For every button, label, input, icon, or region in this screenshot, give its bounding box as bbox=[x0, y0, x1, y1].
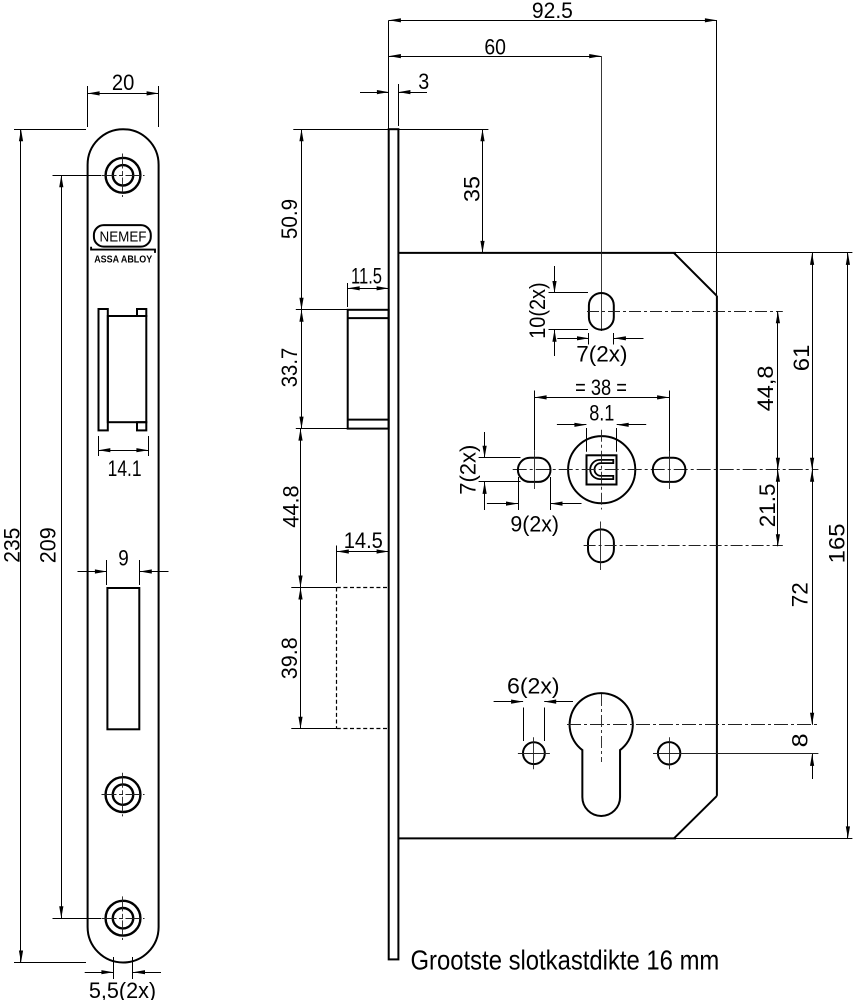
top oblong hole bbox=[589, 293, 614, 330]
bottom edge extension for 165 bbox=[676, 838, 852, 840]
svg-text:Grootste slotkastdikte 16 mm: Grootste slotkastdikte 16 mm bbox=[411, 944, 720, 975]
dim 3 line with outside arrows bbox=[360, 92, 389, 94]
svg-text:72: 72 bbox=[787, 582, 812, 607]
dim 165 line bbox=[847, 253, 849, 839]
right oblong vertical crosshair bbox=[669, 451, 671, 489]
svg-text:9: 9 bbox=[118, 546, 129, 571]
dim 14.1 line bbox=[98, 450, 148, 452]
latch bolt side view box bbox=[348, 310, 389, 429]
svg-text:5,5(2x): 5,5(2x) bbox=[89, 978, 156, 1000]
svg-text:14.5: 14.5 bbox=[344, 528, 383, 553]
svg-text:= 38 =: = 38 = bbox=[575, 375, 627, 400]
dim 14.5 line bbox=[337, 551, 389, 553]
top oblong horizontal centerline bbox=[587, 311, 783, 313]
dim 21.5 line bbox=[777, 470, 779, 547]
dim 9(2x) extension lines bbox=[518, 477, 520, 510]
top face extension line left bbox=[293, 129, 388, 131]
svg-text:165: 165 bbox=[824, 523, 849, 563]
latch cutout left bar bbox=[99, 309, 108, 430]
latch bottom extension line bbox=[296, 428, 348, 430]
dim 38 extension lines bbox=[534, 391, 536, 451]
latch cutout top tab bbox=[137, 309, 146, 316]
svg-text:14.1: 14.1 bbox=[108, 456, 142, 481]
lower oblong horizontal centerline bbox=[584, 545, 783, 547]
svg-text:60: 60 bbox=[484, 35, 506, 60]
bottom screw hole crosshair bbox=[102, 918, 145, 920]
top screw hole inner bbox=[113, 165, 133, 185]
left oblong hole at follower height bbox=[518, 458, 551, 482]
dim 7(2x) left extension lines bbox=[479, 457, 521, 459]
svg-text:33.7: 33.7 bbox=[277, 348, 302, 388]
lock case bottom chamfer bbox=[674, 796, 717, 839]
right oblong hole at follower height bbox=[653, 458, 686, 482]
left small hole near cylinder bbox=[523, 742, 545, 764]
faceplate front outline bbox=[88, 129, 159, 962]
dim 209 extension top bbox=[53, 175, 102, 177]
svg-text:7(2x): 7(2x) bbox=[576, 342, 627, 367]
svg-text:44.8: 44.8 bbox=[279, 485, 304, 527]
dim 50.9 line bbox=[301, 129, 303, 310]
dim 9 line with outside arrows bbox=[78, 571, 107, 573]
latch cutout main body bbox=[108, 316, 147, 422]
follower horizontal centerline bbox=[513, 469, 819, 471]
svg-text:7(2x): 7(2x) bbox=[456, 445, 481, 495]
dim 44,8 right line bbox=[777, 311, 779, 469]
latch bolt lip bottom line bbox=[348, 419, 389, 421]
top screw hole crosshair bbox=[102, 175, 145, 177]
svg-text:92.5: 92.5 bbox=[532, 0, 573, 23]
left small hole crosshair bbox=[518, 753, 550, 755]
lock case right edge bbox=[716, 296, 718, 796]
deadbolt cutout bbox=[107, 588, 139, 729]
svg-text:35: 35 bbox=[460, 176, 485, 202]
svg-text:NEMEF: NEMEF bbox=[100, 229, 147, 246]
top screw hole outer bbox=[106, 158, 141, 193]
top face extension line right bbox=[398, 129, 488, 131]
bottom screw hole outer bbox=[106, 901, 141, 936]
top edge extension for 61 165 bbox=[676, 252, 852, 254]
dim 92.5 line bbox=[389, 20, 717, 22]
dim 60 line bbox=[389, 56, 601, 58]
lock case bottom edge bbox=[398, 837, 676, 839]
dim 92.5 right extension bbox=[716, 20, 718, 296]
left oblong vertical crosshair bbox=[534, 451, 536, 489]
pocket bottom extension line bbox=[291, 728, 337, 730]
dim 5,5 extension lines bbox=[113, 957, 115, 979]
dim 7(2x) top line with outside arrows bbox=[557, 338, 589, 340]
dim 235 line bbox=[20, 129, 22, 962]
bottom screw hole inner bbox=[113, 908, 133, 928]
pocket top extension line bbox=[291, 587, 337, 589]
dim 3 right extension bbox=[398, 84, 400, 126]
latch bolt lip top line bbox=[348, 317, 389, 319]
follower vertical centerline bbox=[601, 430, 603, 510]
lower oblong hole bbox=[588, 529, 614, 562]
faceplate side strip bbox=[389, 129, 399, 959]
svg-text:11.5: 11.5 bbox=[351, 264, 382, 289]
dim 209 line bbox=[61, 175, 63, 918]
right small hole crosshair bbox=[669, 737, 671, 769]
dim 10(2x) line with outside arrows bbox=[554, 266, 556, 293]
follower circle bbox=[568, 436, 635, 503]
svg-text:235: 235 bbox=[0, 528, 24, 563]
follower square hole bbox=[587, 455, 617, 484]
svg-text:61: 61 bbox=[789, 345, 814, 372]
dim 9 extension lines bbox=[106, 560, 108, 585]
cylinder vertical centerline bbox=[601, 694, 603, 762]
dim 11.5 line bbox=[348, 288, 389, 290]
latch top extension line bbox=[296, 309, 348, 311]
dim 10(2x) extension lines bbox=[549, 292, 589, 294]
dashed deadbolt pocket top bbox=[337, 587, 389, 589]
dim 92.5 left extension bbox=[388, 20, 390, 129]
dim 6(2x) extension lines bbox=[523, 708, 525, 742]
dim 72 line bbox=[812, 470, 814, 725]
dashed deadbolt pocket bottom bbox=[337, 728, 389, 730]
right small hole near cylinder bbox=[658, 742, 680, 764]
middle screw hole crosshair bbox=[102, 794, 145, 796]
svg-text:3: 3 bbox=[418, 69, 429, 94]
dim 7(2x) top extension lines bbox=[588, 333, 590, 345]
svg-text:8: 8 bbox=[787, 733, 812, 747]
dim 209 extension bottom bbox=[53, 918, 102, 920]
svg-text:10(2x): 10(2x) bbox=[525, 282, 550, 338]
logo underline bracket bbox=[91, 247, 155, 253]
dim 235 extension bottom bbox=[14, 962, 86, 964]
dim 14.1 extension lines bbox=[98, 436, 100, 456]
right small hole horizontal centerline bbox=[653, 753, 818, 755]
lower oblong vertical crosshair bbox=[600, 522, 602, 571]
dashed deadbolt pocket left bbox=[336, 588, 338, 729]
follower spring clip C profile bbox=[590, 460, 613, 479]
dim 9(2x) line with outside arrows bbox=[487, 503, 518, 505]
cylinder horizontal centerline bbox=[567, 724, 818, 726]
middle screw hole outer bbox=[106, 777, 141, 812]
dim 8.1 extension lines bbox=[586, 428, 588, 452]
middle screw hole inner bbox=[113, 784, 133, 804]
euro cylinder hole bbox=[570, 693, 633, 816]
svg-text:39.8: 39.8 bbox=[277, 637, 302, 679]
dim 35 line bbox=[482, 129, 484, 253]
dim 60 right extension centerline bbox=[601, 56, 603, 331]
svg-text:20: 20 bbox=[112, 70, 134, 95]
dim 8 lower arrow with outside shaft bbox=[812, 754, 814, 779]
dim 38 line bbox=[535, 397, 670, 399]
lock case top chamfer bbox=[674, 253, 717, 296]
dim 44.8 left line bbox=[300, 429, 302, 588]
svg-text:44,8: 44,8 bbox=[753, 366, 778, 412]
dim 61 line bbox=[812, 253, 814, 470]
svg-text:ASSA ABLOY: ASSA ABLOY bbox=[94, 255, 152, 266]
svg-text:8.1: 8.1 bbox=[589, 400, 614, 425]
svg-text:50.9: 50.9 bbox=[277, 199, 302, 239]
dim 7(2x) left line with outside arrows bbox=[484, 432, 486, 458]
svg-text:6(2x): 6(2x) bbox=[507, 674, 560, 699]
dim 235 extension top bbox=[14, 129, 86, 131]
dim 39.8 line bbox=[300, 588, 302, 729]
svg-text:21.5: 21.5 bbox=[755, 484, 780, 528]
svg-text:209: 209 bbox=[36, 527, 61, 563]
dim 11.5 extension bbox=[347, 283, 349, 307]
dim 6(2x) line with outside arrows bbox=[494, 701, 523, 703]
dim 20 line bbox=[88, 93, 159, 95]
dim 20 extension lines bbox=[87, 86, 89, 127]
dim 8.1 line with outside arrows bbox=[557, 424, 587, 426]
NEMEF logo box bbox=[94, 225, 151, 247]
dim 5,5 line with outside arrows bbox=[85, 972, 114, 974]
dim 33.7 line bbox=[301, 310, 303, 429]
dim 14.5 extension bbox=[336, 546, 338, 584]
lock case top edge bbox=[398, 252, 676, 254]
latch cutout bottom tab bbox=[137, 422, 146, 430]
svg-text:9(2x): 9(2x) bbox=[510, 512, 559, 537]
